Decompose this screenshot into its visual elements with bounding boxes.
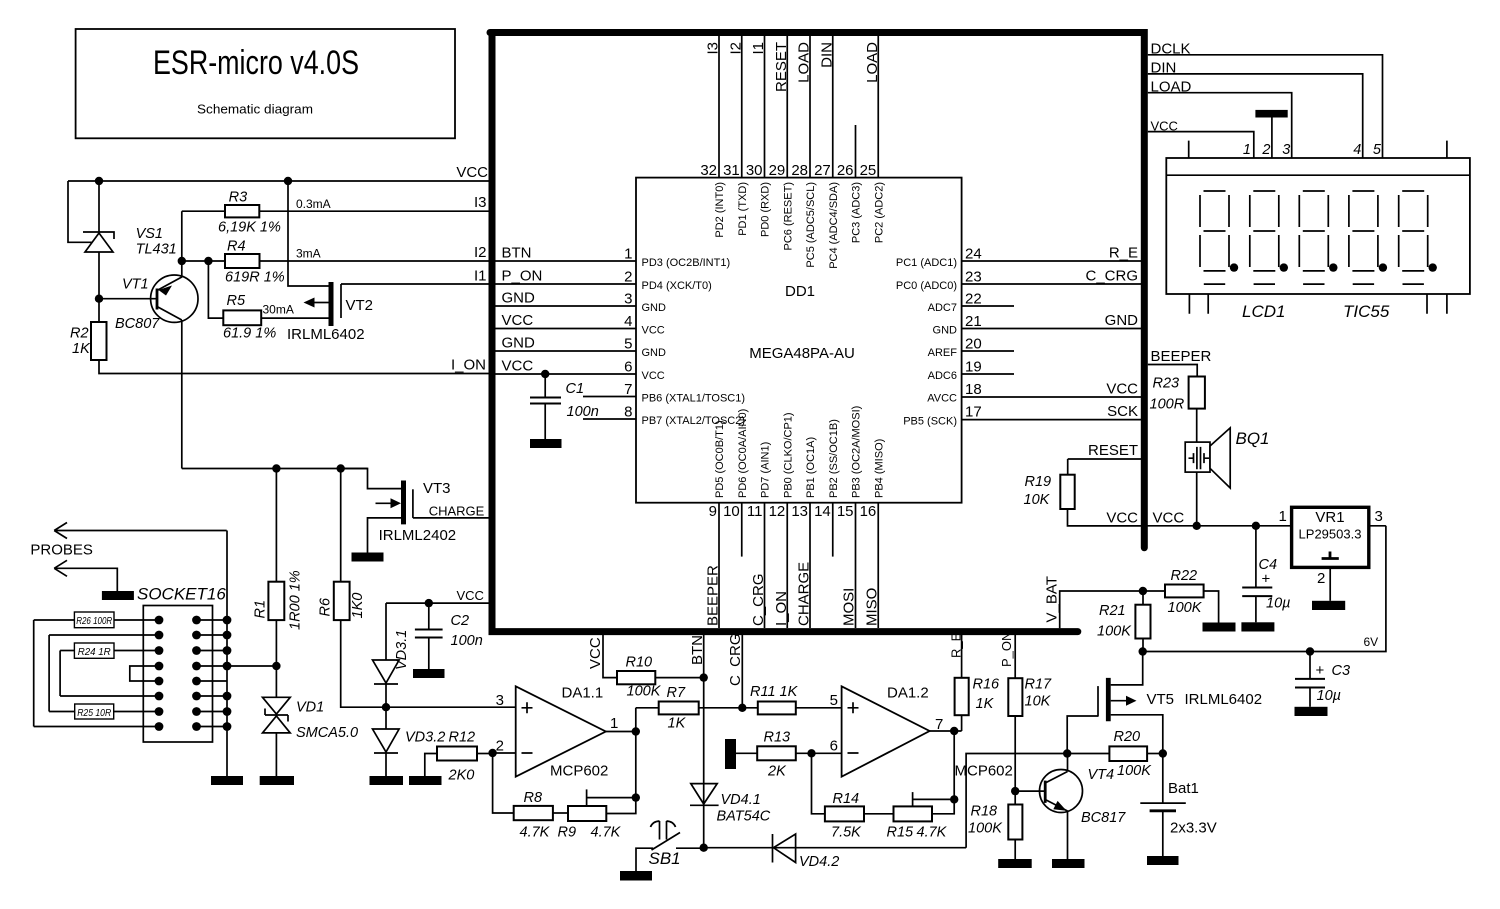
svg-text:TIC55: TIC55 [1343,302,1390,321]
resistor R19 10K [1067,459,1069,475]
digit 2 [1250,191,1279,284]
ground C3 [1295,707,1328,716]
svg-text:CHARGE: CHARGE [429,504,485,519]
socket pin dots left column [155,616,164,731]
svg-text:VCC: VCC [1151,119,1178,134]
svg-text:30: 30 [746,162,763,179]
svg-text:3: 3 [1375,508,1383,525]
top pin numbers [700,162,876,179]
node R17/R18/VT4 [1011,787,1019,795]
right inside pin names [896,257,957,428]
svg-text:1R00 1%: 1R00 1% [288,570,304,630]
VCC rail top-left [68,180,489,182]
node R1/VD1/socket [272,662,280,670]
right pin numbers [965,246,982,421]
transistor VT1 BC807 [99,211,198,468]
node SB1/VD4.2 [700,844,708,852]
svg-text:PD0 (RXD): PD0 (RXD) [760,182,772,237]
LCD unconnected top stubs [1189,141,1447,158]
svg-text:4.7K: 4.7K [520,825,551,841]
svg-text:BC817: BC817 [1081,810,1126,826]
resistor R23 100R [1189,377,1205,409]
wire C_CRG drop [741,632,743,708]
svg-text:VT4: VT4 [1088,767,1115,783]
wire P_ON drop [1014,632,1016,679]
svg-text:R18: R18 [971,804,998,820]
wire DCLK [1148,55,1383,158]
wire output feedback [606,708,636,798]
resistor R25 10R [75,704,114,719]
svg-text:PD2 (INT0): PD2 (INT0) [714,182,726,238]
resistor R11 1K [758,702,796,715]
svg-text:AREF: AREF [928,347,958,359]
diode VD3.2 [373,707,400,776]
svg-text:ESR-micro v4.0S: ESR-micro v4.0S [153,44,359,82]
svg-text:R5: R5 [227,293,246,309]
svg-text:10: 10 [723,503,740,520]
svg-text:R14: R14 [833,791,860,807]
svg-text:DA1.1: DA1.1 [562,685,604,702]
svg-text:32: 32 [700,162,717,179]
svg-text:VD4.1: VD4.1 [721,792,761,808]
ground wall R13 [725,739,736,769]
svg-text:6: 6 [624,359,632,376]
wire VCC drop to R10 [603,632,617,678]
digit 3 [1299,191,1328,284]
svg-text:IRLML6402: IRLML6402 [1185,691,1263,708]
svg-text:PC3 (ADC3): PC3 (ADC3) [851,182,863,243]
svg-text:PC4 (ADC4/SDA): PC4 (ADC4/SDA) [828,182,840,269]
svg-text:31: 31 [723,162,740,179]
MCU top pin wires 32-25 [719,36,878,178]
wire VCC to VD3.1 [386,602,489,604]
diode VD3.1 [373,603,400,707]
svg-text:100K: 100K [1168,600,1203,616]
node R13/R14 [807,749,815,757]
svg-text:IRLML2402: IRLML2402 [379,527,457,544]
svg-text:PC1 (ADC1): PC1 (ADC1) [896,257,957,269]
svg-text:2x3.3V: 2x3.3V [1170,820,1217,837]
resistor R14 7.5K [812,753,825,814]
ground probe [102,591,134,600]
svg-text:R19: R19 [1025,474,1052,490]
svg-text:PC6 (RESET): PC6 (RESET) [782,182,794,250]
svg-text:BEEPER: BEEPER [1151,348,1212,365]
svg-text:R4: R4 [227,239,246,255]
shunt reference VS1 TL431 [83,232,114,252]
wire I1 line [341,283,489,285]
svg-text:5: 5 [830,692,838,709]
svg-text:19: 19 [965,359,982,376]
svg-text:+: + [1316,662,1325,679]
svg-text:13: 13 [791,503,808,520]
svg-text:GND: GND [502,290,536,307]
svg-text:PD4 (XCK/T0): PD4 (XCK/T0) [642,280,712,292]
svg-text:I1: I1 [474,268,487,285]
probe arrow 1 [54,523,227,539]
ground C2 [413,669,445,678]
svg-text:7: 7 [624,381,632,398]
wire socket to R1 node [227,665,276,667]
wire R6 to DA1.1 input node [341,620,516,707]
svg-text:VCC: VCC [456,164,488,181]
node R9 wiper [632,793,640,801]
wire SB1 row to DA1.2 feedback [704,847,966,849]
socket common vertical [226,531,228,777]
left border net labels [502,245,543,375]
svg-text:MCP602: MCP602 [955,763,1013,780]
svg-text:DA1.2: DA1.2 [887,685,929,702]
wire socket row8 [34,726,159,728]
resistor R10 100K [617,671,655,684]
svg-text:LCD1: LCD1 [1242,302,1285,321]
svg-text:2: 2 [624,269,632,286]
svg-text:R8: R8 [524,790,543,806]
svg-text:VCC: VCC [1153,510,1185,527]
digit 4 [1349,191,1378,284]
ground C1 [530,439,562,448]
wire BEEPER [1148,365,1197,377]
svg-text:R7: R7 [667,685,686,701]
svg-text:C_CRG: C_CRG [1085,268,1138,285]
svg-text:SMCA5.0: SMCA5.0 [296,725,358,741]
svg-text:Bat1: Bat1 [1168,780,1199,797]
svg-text:PB4 (MISO): PB4 (MISO) [873,439,885,498]
svg-text:12: 12 [769,503,786,520]
right border net labels [1085,245,1138,421]
svg-text:R24 1R: R24 1R [78,646,111,658]
resistor R4 619R 1% [182,260,225,262]
wire inverting input [493,752,516,754]
wire VS1 to R2 [98,252,100,322]
wire RESET [1068,458,1145,460]
svg-text:30mA: 30mA [263,303,294,317]
node C4/VCC [1252,522,1260,530]
svg-text:16: 16 [860,503,877,520]
svg-text:18: 18 [965,381,982,398]
svg-text:11: 11 [747,503,763,520]
svg-text:TL431: TL431 [136,242,177,258]
pin 26 stub [855,125,857,178]
svg-text:VCC: VCC [457,588,484,603]
svg-text:ADC6: ADC6 [928,370,957,382]
svg-text:R20: R20 [1114,729,1141,745]
transistor VT2 IRLML6402 [288,181,341,326]
svg-text:RESET: RESET [1088,442,1138,459]
digit 5 [1399,191,1428,284]
wire I3 line [259,210,488,212]
svg-text:VT3: VT3 [423,480,451,497]
svg-text:GND: GND [502,335,536,352]
svg-text:R22: R22 [1171,568,1198,584]
LCD bottom stubs [1189,294,1447,314]
svg-text:RESET: RESET [773,42,790,92]
svg-text:BAT54C: BAT54C [717,809,771,825]
wire CHARGE gate line [413,517,489,519]
svg-text:PB7 (XTAL2/TOSC2): PB7 (XTAL2/TOSC2) [642,415,746,427]
svg-text:6,19K 1%: 6,19K 1% [218,220,281,236]
node C3 on 6V [1306,647,1314,655]
svg-text:R16: R16 [973,677,1001,693]
svg-text:8: 8 [624,404,632,421]
ground bar LCD pin2 [1255,110,1287,118]
svg-text:I1: I1 [750,42,767,55]
resistor R1 1R00 1% [275,469,277,582]
svg-text:100n: 100n [451,633,483,649]
svg-text:14: 14 [814,503,831,520]
wire bus A [33,620,35,727]
svg-text:3mA: 3mA [296,247,321,261]
svg-text:I2: I2 [474,244,487,261]
left inside pin names [642,257,746,427]
svg-text:R1: R1 [253,600,269,619]
svg-text:LOAD: LOAD [1151,79,1192,96]
resistor R17 10K [1008,678,1022,716]
MCU right pin wires 24-17 [962,261,1144,420]
resistor R26 100R [74,612,114,628]
svg-text:VD1: VD1 [296,700,324,716]
resistor R21 100K [1142,591,1144,605]
svg-text:PD6 (OC0A/AIN0): PD6 (OC0A/AIN0) [737,409,749,498]
svg-text:0.3mA: 0.3mA [296,197,331,211]
svg-text:R11 1K: R11 1K [750,684,799,700]
svg-text:R10: R10 [626,655,653,671]
ground VD1 [260,776,294,785]
svg-text:VCC: VCC [642,325,665,337]
svg-text:I2: I2 [727,42,744,55]
resistor R18 100K [1008,805,1022,840]
svg-text:C2: C2 [451,613,470,629]
svg-text:PC5 (ADC5/SCL): PC5 (ADC5/SCL) [805,182,817,268]
svg-text:4: 4 [624,313,632,330]
svg-text:PB6 (XTAL1/TOSC1): PB6 (XTAL1/TOSC1) [642,393,746,405]
wire R8-R9 [553,812,568,814]
junction dot VCC/VT2 [284,177,292,185]
node R21 bottom / 6V [1139,647,1147,655]
svg-text:R_E: R_E [949,632,964,658]
wire I2 line [260,260,489,262]
module border [490,33,1144,632]
wire VS1 ref feedback [68,181,92,242]
svg-text:3: 3 [1282,142,1290,158]
svg-text:R15: R15 [887,825,915,841]
wire R2 to I_ON line [99,360,489,374]
svg-text:7.5K: 7.5K [831,825,862,841]
resistor R5 61.9 1% [223,310,261,325]
svg-text:6V: 6V [1364,635,1379,649]
capacitor C4 10u [1242,526,1272,623]
svg-text:I3: I3 [705,42,722,55]
wire socket row2 [49,634,159,636]
svg-text:VS1: VS1 [136,226,163,242]
node R4/R5 junction [204,257,212,265]
svg-text:1K: 1K [976,696,995,712]
svg-text:VCC: VCC [502,312,534,329]
svg-text:C1: C1 [566,381,585,397]
MCU bottom pin wires 9-16 [719,503,878,628]
svg-text:100K: 100K [968,821,1003,837]
svg-text:BTN: BTN [689,635,706,665]
ground C4 [1241,622,1274,631]
node C2 [425,599,433,607]
capacitor C3 10u [1295,652,1325,707]
diode VD4.2 [773,834,796,863]
svg-text:V_BAT: V_BAT [1044,576,1061,622]
svg-text:AVCC: AVCC [927,393,957,405]
title box [76,29,455,138]
svg-text:2: 2 [1261,142,1270,158]
wire bus C [59,651,61,697]
node VT4 collector / VT5 gate [1063,749,1071,757]
svg-text:PB0 (CLKO/CP1): PB0 (CLKO/CP1) [782,412,794,498]
svg-text:VT1: VT1 [122,277,149,293]
node R1 top [272,464,280,472]
junction dot VCC/VS1 [95,177,103,185]
node VD3 junction [382,703,390,711]
svg-text:VCC: VCC [642,370,665,382]
svg-text:PD5 (OC0B/T1): PD5 (OC0B/T1) [714,420,726,498]
buzzer BQ1 [1185,428,1230,488]
resistor R22 100K [1143,590,1165,592]
svg-text:10K: 10K [1025,694,1052,710]
svg-text:PD3 (OC2B/INT1): PD3 (OC2B/INT1) [642,257,731,269]
svg-text:GND: GND [642,302,667,314]
digit 1 [1200,191,1229,284]
svg-text:PD1 (TXD): PD1 (TXD) [737,182,749,236]
wire R5 to VT2 [261,317,328,319]
svg-text:R13: R13 [764,730,791,746]
svg-text:LOAD: LOAD [796,42,813,83]
svg-text:25: 25 [860,162,877,179]
node output DA1.2 [950,727,958,735]
op-amp DA1.1 MCP602 [516,686,606,776]
TVS diode VD1 SMCA5.0 [263,697,291,776]
svg-text:C_CRG: C_CRG [727,633,744,686]
svg-text:PC2 (ADC2): PC2 (ADC2) [873,182,885,243]
svg-text:100n: 100n [567,404,599,420]
wire 6V rail [1143,526,1386,652]
connector SOCKET16 [143,606,212,743]
svg-text:5: 5 [1373,142,1382,158]
svg-text:PB3 (OC2A/MOSI): PB3 (OC2A/MOSI) [851,406,863,498]
svg-text:SCK: SCK [1107,403,1138,420]
wire VCC to VS1 [98,181,100,232]
svg-text:619R 1%: 619R 1% [225,270,285,286]
socket common dots [223,616,232,731]
left pin numbers [624,246,632,421]
diode VD4.1 BAT54C [690,784,719,806]
wire bus B [48,635,50,712]
svg-text:23: 23 [965,269,982,286]
svg-text:I_ON: I_ON [773,591,790,626]
resistor R20 100K [1067,753,1109,755]
svg-text:PB5 (SCK): PB5 (SCK) [903,416,957,428]
svg-text:1: 1 [610,715,618,732]
capacitor C2 100n [415,603,443,669]
svg-text:I_ON: I_ON [451,357,486,374]
svg-text:R2: R2 [70,326,89,342]
svg-text:3: 3 [624,291,632,308]
svg-text:R23: R23 [1153,376,1180,392]
svg-text:17: 17 [965,404,982,421]
svg-text:6: 6 [830,738,838,755]
wire collector rail [182,468,368,470]
svg-text:15: 15 [837,503,854,520]
wire LOAD [1148,93,1292,158]
svg-text:1: 1 [1279,508,1287,525]
svg-text:VD3.2: VD3.2 [405,730,445,746]
svg-text:100K: 100K [1097,624,1132,640]
resistor R7 1K [636,707,659,709]
node BQ1/VCC [1193,522,1201,530]
svg-text:I3: I3 [474,194,487,211]
node R15 wiper [950,795,958,803]
wire VCC to LCD [1148,132,1254,158]
resistor R8 4.7K [493,753,514,813]
ground SB1 [620,871,652,881]
MCU left pin wires 1-6 [492,261,636,374]
transistor VT3 IRLML2402 [341,469,413,553]
display LCD1 TIC55 [1166,158,1470,294]
transistor VT4 BC817 [1015,754,1082,860]
bottom pin numbers [709,503,877,520]
svg-text:21: 21 [965,313,982,330]
socket pin dots right column [192,616,201,731]
svg-text:BC807: BC807 [115,316,160,332]
resistor R16 1K [961,715,963,731]
ground Bat1 [1147,856,1179,865]
svg-text:BTN: BTN [502,245,532,262]
svg-text:BEEPER: BEEPER [705,565,722,626]
svg-text:24: 24 [965,246,982,263]
node R20/Bat1 [1159,749,1167,757]
bottom inside pin names (rotated) [714,406,885,498]
transistor VT5 IRLML6402 [1067,652,1163,754]
trimmer R9 4.7K [568,806,606,821]
node R12/R8 [488,749,496,757]
capacitor C1 100n [530,374,561,439]
svg-text:CHARGE: CHARGE [796,562,813,626]
svg-text:DD1: DD1 [785,283,815,300]
ground VT4 [1052,859,1085,868]
socket right column wires [197,620,228,727]
svg-text:GND: GND [933,325,958,337]
svg-text:4.7K: 4.7K [591,825,622,841]
svg-text:20: 20 [965,336,982,353]
svg-text:MCP602: MCP602 [550,763,608,780]
svg-text:IRLML6402: IRLML6402 [287,326,365,343]
wire DA1.2 output [930,731,962,799]
svg-text:4.7K: 4.7K [917,825,948,841]
svg-text:2: 2 [1317,570,1325,587]
svg-text:1: 1 [1243,142,1251,158]
svg-text:SOCKET16: SOCKET16 [137,585,226,604]
svg-text:10µ: 10µ [1317,688,1341,704]
svg-text:R26 100R: R26 100R [76,615,112,627]
node R21/R22/V_BAT [1139,587,1147,595]
svg-text:Schematic diagram: Schematic diagram [197,102,313,117]
pin 10 stub [741,503,743,557]
svg-text:1K: 1K [72,341,91,357]
svg-text:9: 9 [709,503,717,520]
svg-text:P_ON: P_ON [502,268,543,285]
node C_CRG/R11 [738,704,746,712]
svg-text:MOSI: MOSI [841,588,858,626]
svg-text:R21: R21 [1099,603,1126,619]
svg-text:VD4.2: VD4.2 [799,854,839,870]
svg-text:28: 28 [791,162,808,179]
node R3/R4 emitter junction [178,257,186,265]
